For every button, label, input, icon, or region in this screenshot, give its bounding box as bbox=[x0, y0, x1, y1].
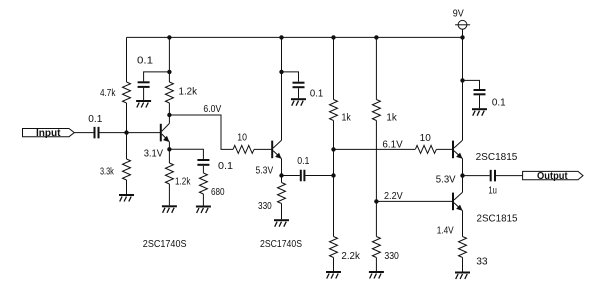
svg-text:0.1: 0.1 bbox=[218, 160, 233, 172]
resistor R9 2.2k bbox=[330, 237, 338, 258]
svg-text:2SC1740S: 2SC1740S bbox=[143, 238, 187, 250]
svg-text:5.3V: 5.3V bbox=[256, 165, 274, 177]
wire: rail corner down to R1 4.7k bbox=[126, 37, 128, 82]
junction node H (6.1V) bbox=[331, 147, 335, 151]
wire: node H to R12 bbox=[334, 148, 416, 150]
power terminal 9V bbox=[455, 20, 470, 37]
wire: input flag to C1 bbox=[74, 132, 93, 134]
resistor R6 10 bbox=[233, 145, 254, 153]
wire: R13 to ground bbox=[462, 258, 464, 272]
svg-text:680: 680 bbox=[211, 186, 225, 198]
svg-text:Output: Output bbox=[537, 170, 568, 182]
capacitor C5 0.1 coupling bbox=[300, 170, 306, 182]
svg-text:0.1: 0.1 bbox=[88, 113, 102, 125]
svg-text:2.2V: 2.2V bbox=[384, 190, 403, 202]
wire: R12 to Q3 base bbox=[436, 148, 453, 150]
transistor Q2 2SC1740S bbox=[272, 140, 281, 159]
wire: R1 to node A to R2 bbox=[126, 103, 128, 159]
wire: Q2 emitter to node F bbox=[281, 159, 283, 176]
wire: R9 to ground bbox=[333, 258, 335, 272]
svg-text:0.1: 0.1 bbox=[492, 97, 506, 109]
junction node F (emitter Q2, 5.3V) bbox=[279, 173, 283, 177]
wire: rail down to node B bbox=[168, 37, 170, 82]
svg-text:1k: 1k bbox=[342, 111, 352, 123]
svg-text:2SC1815: 2SC1815 bbox=[476, 151, 518, 163]
svg-text:1.2k: 1.2k bbox=[175, 176, 191, 188]
wire: rail down to Q2 collector bbox=[281, 37, 283, 140]
svg-text:0.1: 0.1 bbox=[297, 155, 309, 167]
wire: R7 to ground bbox=[281, 204, 283, 220]
wire: 9V supply rail bbox=[127, 36, 463, 38]
svg-text:6.0V: 6.0V bbox=[203, 103, 221, 115]
junction node J (decoupling branch) bbox=[460, 78, 464, 82]
wire: node D to C3 branch bbox=[169, 149, 203, 159]
wire: C7 to output flag bbox=[496, 175, 523, 177]
junction node K (output node, 5.3V) bbox=[460, 173, 464, 177]
junction node C (collector Q1, 6.0V) bbox=[167, 113, 171, 117]
svg-text:2SC1740S: 2SC1740S bbox=[260, 238, 302, 250]
svg-text:9V: 9V bbox=[453, 7, 464, 19]
wire: C4 to ground bbox=[298, 88, 300, 98]
wire: R11 to ground bbox=[375, 258, 377, 272]
wire: Q1 emitter to node D bbox=[168, 142, 170, 150]
svg-text:3.1V: 3.1V bbox=[144, 148, 163, 160]
wire: C1 to base node A bbox=[100, 132, 161, 134]
svg-text:4.7k: 4.7k bbox=[100, 87, 116, 99]
junction node A (base Q1) bbox=[124, 130, 128, 134]
capacitor C4 0.1 rail decoupling bbox=[293, 82, 305, 89]
svg-text:10: 10 bbox=[420, 132, 431, 144]
ground below C6 bbox=[472, 109, 487, 116]
ground below C4 bbox=[291, 99, 306, 106]
wire: node F to C5 bbox=[282, 175, 300, 177]
junction rail / 9V stem bbox=[460, 35, 464, 39]
svg-text:2.2k: 2.2k bbox=[341, 250, 360, 262]
wire: R2 to ground bbox=[126, 180, 128, 194]
input terminal flag bbox=[23, 129, 75, 137]
wire: R5 to ground bbox=[202, 194, 204, 206]
output terminal flag bbox=[523, 171, 583, 179]
junction node G (coupling in) bbox=[331, 173, 335, 177]
svg-text:1u: 1u bbox=[488, 185, 497, 197]
ground below R4 bbox=[162, 206, 177, 213]
junction rail at Q1 collector column bbox=[167, 35, 171, 39]
ground below R7 bbox=[274, 220, 289, 227]
resistor R12 10 bbox=[415, 145, 436, 153]
ground below C2 bbox=[136, 101, 151, 108]
svg-text:330: 330 bbox=[258, 200, 272, 212]
wire: Q3 emitter to node K bbox=[462, 159, 464, 176]
ground below R13 bbox=[455, 273, 470, 280]
svg-text:1k: 1k bbox=[386, 111, 397, 123]
junction rail at divider 1 bbox=[331, 35, 335, 39]
capacitor C2 0.1 rail decoupling bbox=[138, 81, 150, 88]
transistor Q1 2SC1740S bbox=[161, 123, 170, 142]
junction node B (top of R3) bbox=[167, 70, 171, 74]
svg-text:3.3k: 3.3k bbox=[100, 165, 114, 177]
wire: Q1 collector bbox=[168, 115, 170, 123]
svg-text:1.2k: 1.2k bbox=[179, 85, 198, 97]
junction rail at divider 2 bbox=[374, 35, 378, 39]
svg-text:0.1: 0.1 bbox=[310, 87, 323, 99]
wire: node I down to R11 bbox=[375, 201, 377, 236]
transistor Q4 2SC1815 bbox=[453, 192, 463, 211]
wire: R4 to ground bbox=[168, 184, 170, 205]
wire: node H to node G bbox=[333, 149, 335, 175]
resistor R8 1k bbox=[330, 100, 338, 121]
wire: node J to C6 bbox=[463, 80, 480, 89]
capacitor C7 1u output coupling bbox=[490, 170, 496, 182]
svg-text:1.4V: 1.4V bbox=[437, 225, 454, 237]
wire: C6 to ground bbox=[479, 95, 481, 108]
wire: R8 to node H bbox=[333, 121, 335, 150]
wire: R3 to collector node bbox=[168, 103, 170, 115]
resistor R11 330 bbox=[372, 237, 380, 258]
junction node D (emitter Q1, 3.1V) bbox=[167, 147, 171, 151]
junction node E (decoupling branch) bbox=[279, 70, 283, 74]
wire: node E to C4 bbox=[282, 72, 299, 82]
wire: R6 to Q2 base bbox=[254, 148, 272, 150]
wire: C5 to node G bbox=[305, 175, 333, 177]
wire: node D down to R4 bbox=[168, 149, 170, 163]
svg-text:330: 330 bbox=[384, 250, 399, 262]
capacitor C3 0.1 emitter bypass bbox=[197, 159, 209, 166]
resistor R7 330 bbox=[278, 183, 286, 204]
svg-text:2SC1815: 2SC1815 bbox=[477, 213, 518, 225]
resistor R1 4.7k bbox=[123, 82, 131, 103]
wire: node B to C2 bbox=[144, 72, 170, 82]
svg-text:33: 33 bbox=[476, 255, 488, 267]
wire: node I to Q4 base bbox=[376, 200, 453, 202]
wire: C2 to ground bbox=[143, 88, 145, 100]
resistor R3 1.2k collector bbox=[165, 82, 173, 103]
svg-text:0.1: 0.1 bbox=[137, 54, 153, 66]
ground below R2 bbox=[119, 195, 134, 202]
ground below R9 bbox=[326, 272, 341, 279]
svg-text:5.3V: 5.3V bbox=[436, 174, 456, 186]
wire: 6.0V node C to R6 bbox=[169, 115, 233, 149]
wire: Q4 emitter to R13 bbox=[462, 211, 464, 237]
transistor Q3 2SC1815 bbox=[453, 140, 463, 159]
resistor R10 1k bbox=[372, 100, 380, 121]
svg-text:Input: Input bbox=[36, 127, 61, 139]
capacitor C1 0.1 input coupling bbox=[94, 127, 100, 139]
wire: R10 down across to node I bbox=[375, 121, 377, 202]
wire: node F down to R7 bbox=[281, 176, 283, 183]
resistor R4 1.2k emitter bbox=[165, 163, 173, 184]
ground below R11 bbox=[369, 272, 384, 279]
wire: node K down to Q4 collector bbox=[462, 176, 464, 193]
resistor R13 33 bbox=[459, 237, 467, 258]
svg-text:10: 10 bbox=[237, 132, 247, 144]
wire: rail down to Q3 collector bbox=[462, 37, 464, 140]
wire: C3 to R5 bbox=[202, 166, 204, 173]
resistor R5 680 bbox=[199, 173, 207, 194]
ground below R5 bbox=[196, 207, 211, 214]
wire: rail down to R10 1k bbox=[375, 37, 377, 99]
junction rail at Q2 collector column bbox=[279, 35, 283, 39]
wire: node K to C7 bbox=[463, 175, 490, 177]
wire: node G down to R9 bbox=[333, 176, 335, 237]
capacitor C6 0.1 rail decoupling bbox=[474, 89, 486, 95]
resistor R2 3.3k bbox=[123, 159, 131, 180]
svg-text:6.1V: 6.1V bbox=[382, 139, 402, 151]
wire: rail down to R8 1k bbox=[333, 37, 335, 99]
junction node I (2.2V) bbox=[374, 199, 378, 203]
